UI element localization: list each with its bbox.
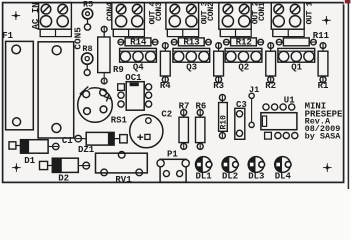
svg-text:DL2: DL2 xyxy=(222,172,238,182)
svg-text:C2: C2 xyxy=(161,109,172,119)
svg-text:CON3: CON3 xyxy=(155,2,164,21)
svg-text:by SASA: by SASA xyxy=(305,131,342,141)
svg-text:CON1: CON1 xyxy=(258,2,267,21)
svg-text:F1: F1 xyxy=(2,31,13,41)
svg-text:AC IN: AC IN xyxy=(30,2,41,29)
svg-text:DL3: DL3 xyxy=(248,172,264,182)
svg-text:R1: R1 xyxy=(318,81,329,91)
svg-text:R2: R2 xyxy=(265,81,276,91)
svg-text:RS1: RS1 xyxy=(111,116,128,126)
svg-text:Q1: Q1 xyxy=(291,63,302,73)
svg-text:DL1: DL1 xyxy=(195,172,212,182)
svg-text:R12: R12 xyxy=(236,37,253,48)
svg-text:CON4: CON4 xyxy=(106,2,115,21)
svg-text:D1: D1 xyxy=(24,156,35,166)
svg-text:CON2: CON2 xyxy=(207,2,216,21)
svg-text:R13: R13 xyxy=(183,37,200,48)
svg-text:DZ1: DZ1 xyxy=(78,145,95,155)
svg-text:Q3: Q3 xyxy=(186,63,197,73)
svg-text:RV1: RV1 xyxy=(115,175,132,185)
svg-text:D2: D2 xyxy=(58,174,69,184)
svg-text:R4: R4 xyxy=(160,81,171,91)
svg-text:OUT 1: OUT 1 xyxy=(306,1,315,24)
svg-text:P1: P1 xyxy=(167,150,178,160)
svg-text:R14: R14 xyxy=(130,37,147,48)
svg-text:R10: R10 xyxy=(219,115,228,130)
svg-text:Q4: Q4 xyxy=(133,63,144,73)
svg-text:DL4: DL4 xyxy=(275,172,292,182)
svg-text:R11: R11 xyxy=(313,31,330,41)
svg-text:Q2: Q2 xyxy=(238,63,249,73)
svg-text:C1: C1 xyxy=(62,136,73,146)
svg-text:R3: R3 xyxy=(213,81,224,91)
svg-text:R9: R9 xyxy=(113,65,124,75)
